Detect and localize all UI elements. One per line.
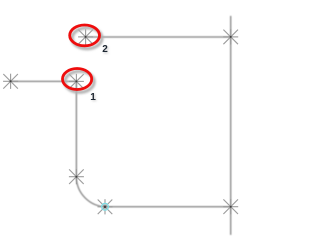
svg-text:1: 1 bbox=[90, 92, 96, 103]
svg-text:2: 2 bbox=[102, 44, 108, 55]
